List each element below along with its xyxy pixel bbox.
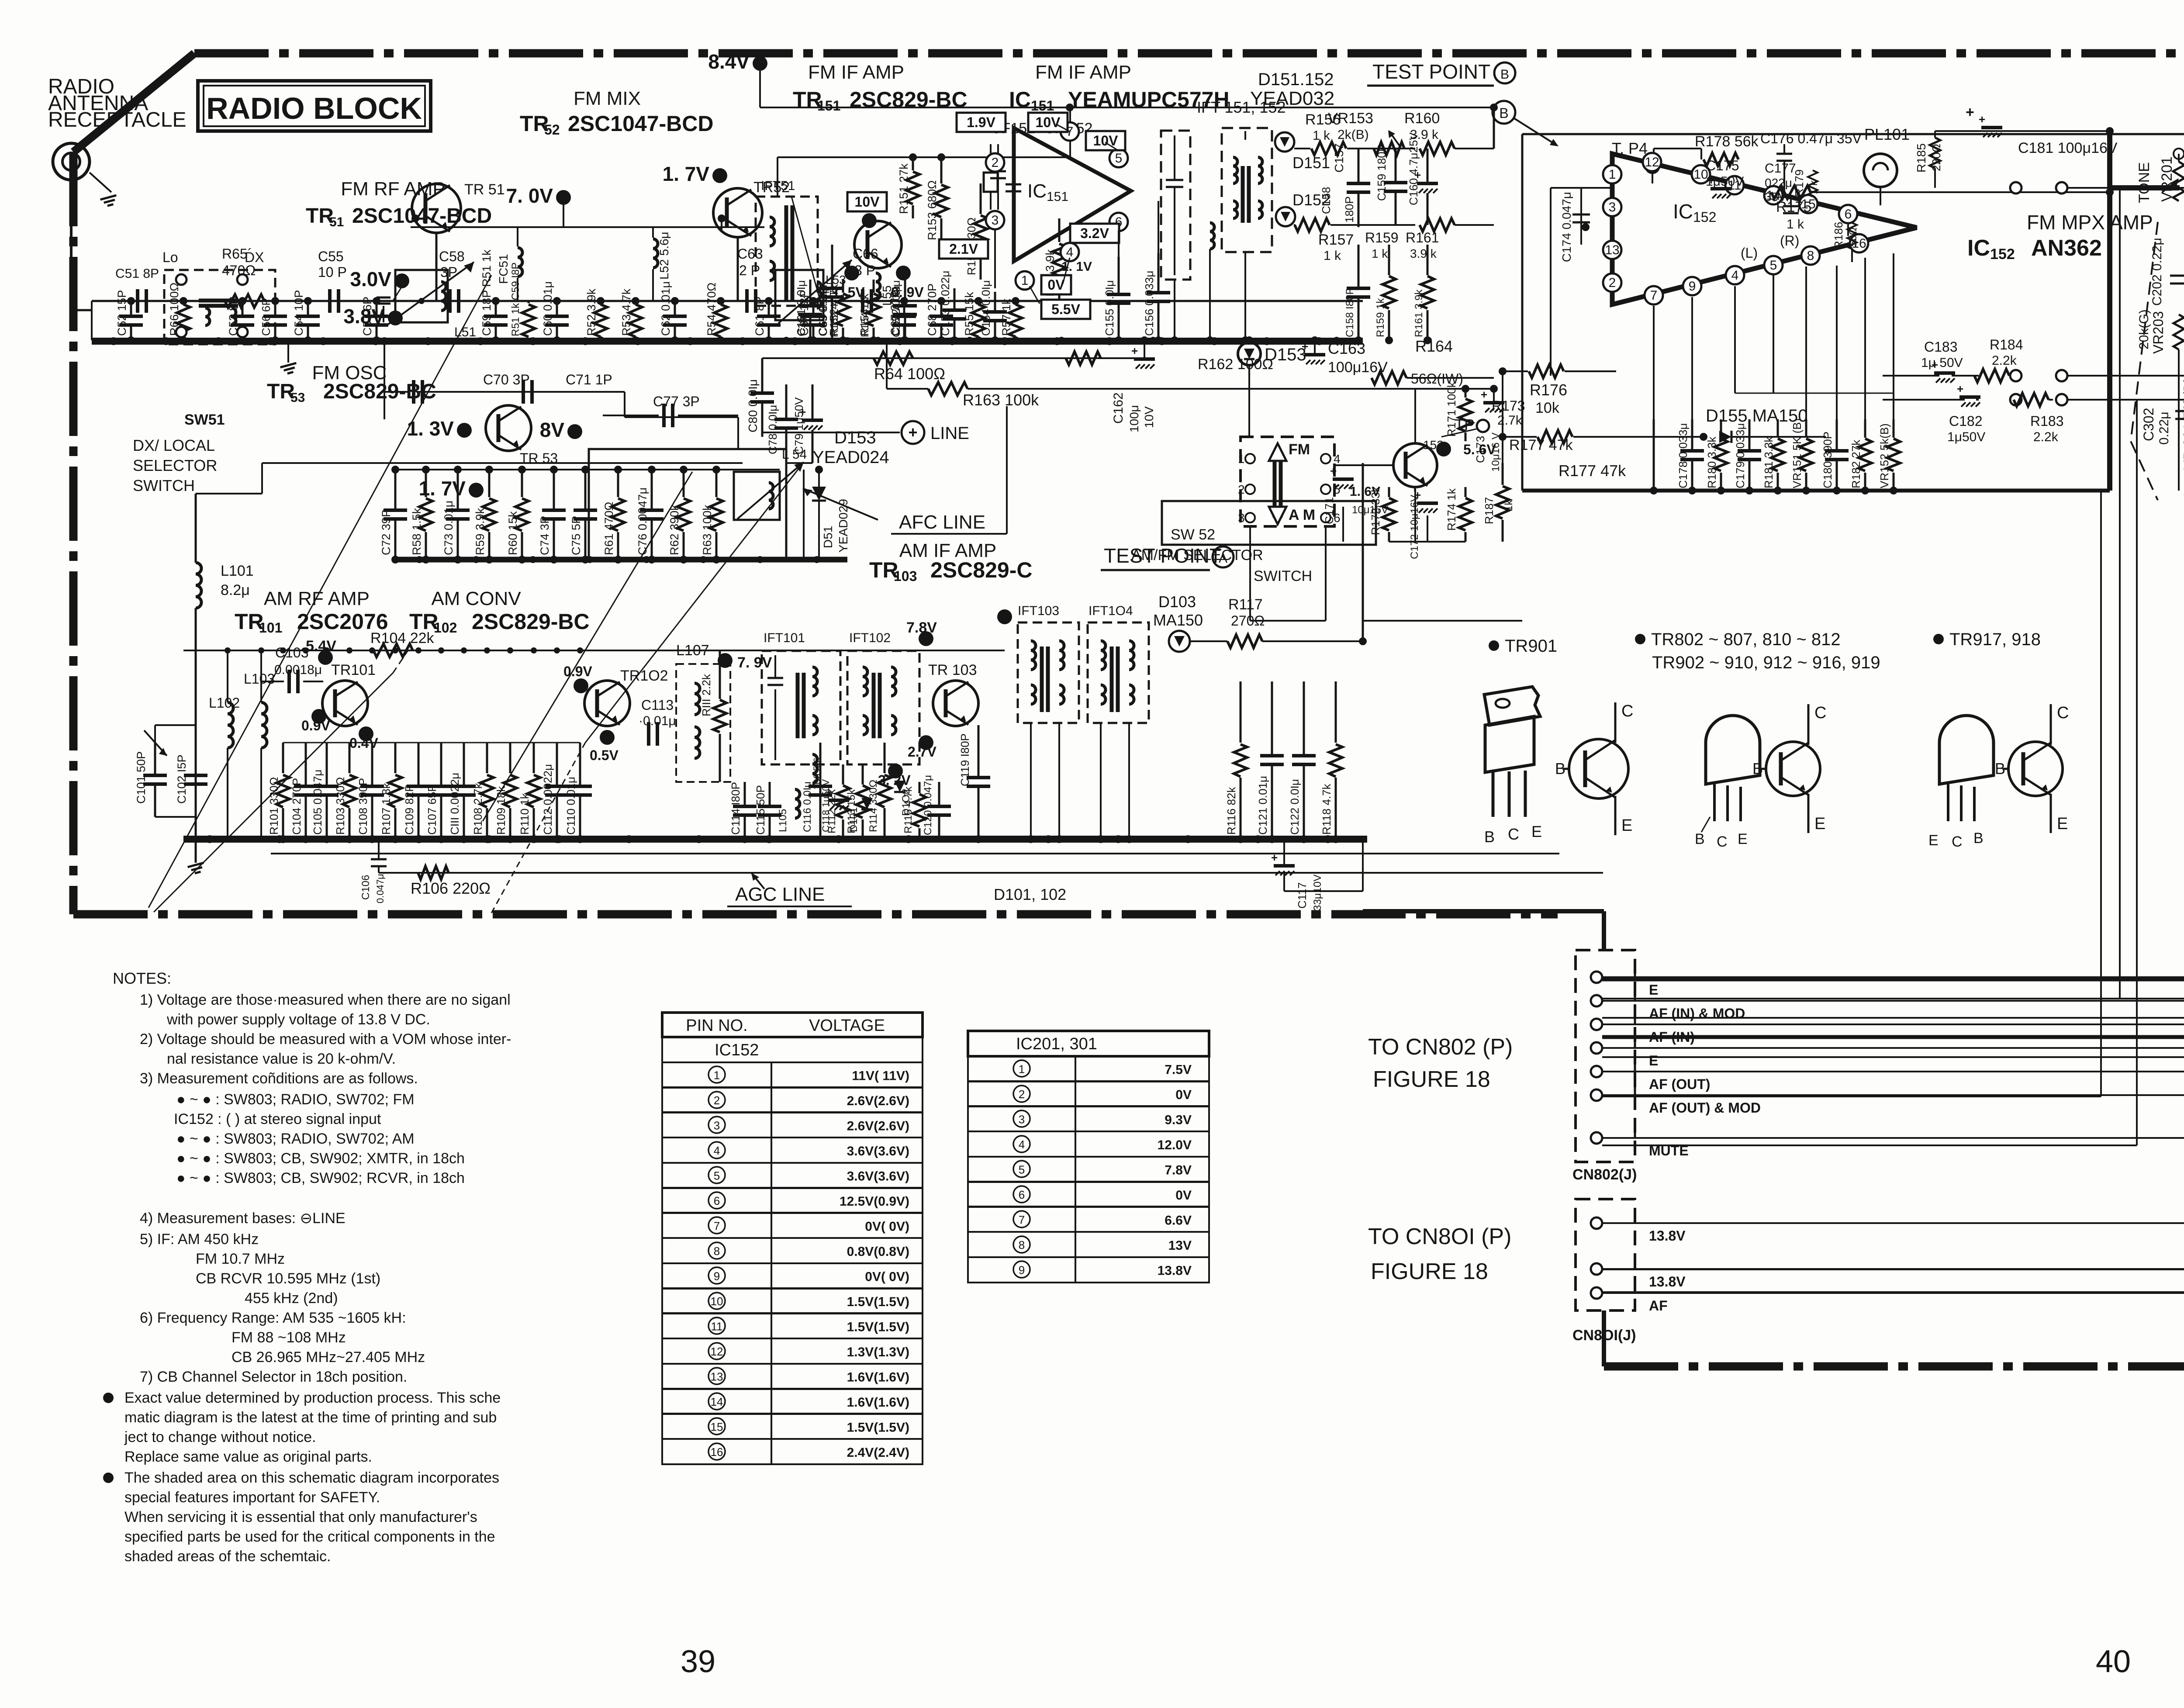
svg-text:C106: C106 — [360, 875, 372, 900]
svg-text:C173: C173 — [1474, 436, 1487, 463]
transistor TR152 — [1393, 443, 1437, 487]
svg-text:R106 220Ω: R106 220Ω — [411, 879, 491, 897]
svg-text:C: C — [1717, 833, 1728, 850]
svg-text:A M: A M — [1289, 507, 1315, 523]
svg-text:1: 1 — [1019, 1062, 1025, 1075]
wire IF rail link — [760, 107, 943, 108]
svg-text:R101 330Ω: R101 330Ω — [267, 777, 280, 835]
resistor R114 330ohm — [884, 743, 886, 773]
svg-text:C101 50P: C101 50P — [135, 751, 148, 804]
wire right risers AM det — [1363, 463, 1415, 463]
pin 3 of IC151 — [986, 211, 1004, 229]
svg-text:E: E — [1649, 1053, 1658, 1068]
svg-text:2: 2 — [1609, 276, 1616, 290]
svg-text:DX/ LOCAL: DX/ LOCAL — [133, 436, 215, 454]
wire AF(IN) — [1602, 638, 2184, 1018]
svg-text:FIGURE 18: FIGURE 18 — [1373, 1067, 1490, 1092]
svg-text:0.9V: 0.9V — [563, 664, 592, 679]
svg-text:R154 1k: R154 1k — [859, 298, 871, 337]
svg-text:C181 100μ16V: C181 100μ16V — [2018, 140, 2118, 156]
svg-text:180P: 180P — [1343, 196, 1356, 223]
svg-text:L101: L101 — [221, 563, 254, 579]
svg-text:4) Measurement bases: ⊖L: 4) Measurement bases: ⊖LINE — [140, 1210, 346, 1227]
svg-text:C174 0.047μ: C174 0.047μ — [1560, 192, 1573, 262]
wire E2 heavy — [1602, 1037, 2184, 1061]
pin 2 of IC152 — [1603, 273, 1621, 292]
svg-text:152: 152 — [1990, 246, 2015, 263]
capacitor C108 — [371, 743, 373, 786]
svg-text:FM MIX: FM MIX — [574, 88, 641, 109]
svg-text:7. 9V: 7. 9V — [737, 654, 772, 671]
svg-text:L52 5.6μ: L52 5.6μ — [657, 232, 671, 280]
pin 12 of IC152 — [1643, 153, 1661, 171]
svg-text:5: 5 — [1115, 151, 1123, 166]
wire heavy E line upper — [1602, 911, 1606, 950]
svg-text:TR 103: TR 103 — [928, 662, 977, 678]
svg-text:2SC1047-BCD: 2SC1047-BCD — [568, 111, 713, 136]
svg-text:C52 15P: C52 15P — [115, 290, 128, 336]
wire SW52 vertical feeds — [1249, 526, 1251, 621]
svg-text:R176: R176 — [1530, 381, 1567, 399]
table IC152 pin voltages — [662, 1013, 923, 1037]
inductor L54 — [734, 472, 780, 520]
wire am det to MPX wall — [1363, 620, 1522, 622]
svg-text:7.8V: 7.8V — [1165, 1163, 1192, 1177]
svg-text:16: 16 — [711, 1445, 723, 1459]
wire am det rail link — [1031, 723, 1129, 723]
lamp PL101 — [1864, 154, 1897, 187]
wire am rail drops — [305, 650, 306, 743]
svg-text:VR201: VR201 — [2159, 156, 2175, 202]
svg-text:C161: C161 — [796, 311, 808, 336]
coil lower 2.2mH — [1210, 223, 1214, 249]
wire TR152 collector up — [1414, 389, 1416, 443]
voltage 3.0V at TR51 base — [394, 273, 409, 288]
svg-text:C152 0.0Iμ: C152 0.0Iμ — [891, 286, 902, 337]
svg-text:12.5V(0.9V): 12.5V(0.9V) — [840, 1194, 909, 1209]
wire L/R output rows — [1882, 306, 1883, 376]
FM OSC bus — [395, 557, 847, 563]
wire MPX lower-left entry — [1522, 491, 1523, 550]
svg-text:C116 0.0Iμ: C116 0.0Iμ — [802, 781, 813, 832]
svg-text:C182: C182 — [1949, 413, 1983, 429]
svg-text:VR151 5K (B): VR151 5K (B) — [1790, 418, 1804, 488]
wire TR51 collector — [415, 218, 416, 221]
voltage box 2.1V — [939, 239, 988, 259]
voltage 1.7V at TR52 — [712, 168, 727, 183]
svg-text:+: + — [1131, 344, 1138, 357]
svg-text:D153: D153 — [1265, 345, 1306, 364]
svg-text:2.2k: 2.2k — [2033, 430, 2059, 444]
svg-text:6: 6 — [714, 1194, 720, 1207]
svg-text:TO CN8OI (P): TO CN8OI (P) — [1368, 1224, 1511, 1249]
svg-text:C109 82P: C109 82P — [403, 784, 416, 835]
svg-text:13V: 13V — [1168, 1238, 1192, 1253]
wire bus stub — [786, 462, 812, 464]
pin 9 of IC152 — [1683, 277, 1701, 295]
transistor TR103 — [933, 681, 978, 726]
svg-text:1 k: 1 k — [1372, 247, 1388, 260]
transformer IFT104 — [1088, 622, 1149, 723]
junction dots OSC bus — [416, 556, 423, 563]
pin 13 of IC152 — [1603, 241, 1621, 259]
coil FC51 — [518, 248, 522, 277]
wire IF out to MPX — [1494, 107, 1522, 108]
svg-text:FC51: FC51 — [497, 254, 510, 284]
svg-text:8.4V: 8.4V — [708, 50, 750, 73]
transistor TR151 — [854, 221, 902, 268]
wire MPX right rows — [2067, 187, 2184, 189]
wire AF(OUT) — [1602, 631, 2184, 1057]
transformer IFT101 — [762, 651, 840, 764]
svg-text:1. 6V: 1. 6V — [1350, 484, 1380, 499]
wire AM det top row — [978, 620, 1363, 621]
capacitor C161 — [809, 280, 812, 306]
package TO-92 TR917 — [1933, 634, 1944, 644]
svg-text:R174 1k: R174 1k — [1445, 488, 1458, 531]
svg-text:R112 22k: R112 22k — [826, 789, 838, 833]
svg-text:101: 101 — [259, 620, 282, 636]
svg-text:FM 88 ~108 MHz: FM 88 ~108 MHz — [232, 1329, 346, 1346]
capacitor C182 1u50V — [1959, 395, 1980, 399]
resistor R61 — [617, 470, 619, 497]
capacitor C181 100u16V — [1981, 126, 2002, 129]
svg-text:2.1V: 2.1V — [949, 241, 978, 257]
inductor L102 — [228, 702, 233, 748]
top rail to IC151 — [943, 107, 1201, 108]
resistor R118 — [1335, 681, 1337, 743]
svg-text:53: 53 — [290, 391, 305, 405]
voltage 8.4V — [753, 56, 767, 71]
wire balance row — [2178, 349, 2180, 491]
resistor R185 220 — [1930, 138, 1940, 168]
resistor R152 — [842, 280, 844, 293]
svg-text:2.6V(2.6V): 2.6V(2.6V) — [847, 1094, 909, 1108]
svg-text:151: 151 — [1031, 98, 1054, 114]
svg-text:12.0V: 12.0V — [1158, 1138, 1192, 1152]
capacitor C58 3P — [448, 289, 452, 313]
capacitor C64 — [812, 301, 815, 316]
svg-text:C54 10P: C54 10P — [292, 290, 305, 336]
capacitor C71 1P — [522, 380, 525, 404]
wire IF top rail — [778, 156, 1070, 158]
pin 11 of IC152 — [1725, 176, 1744, 194]
svg-text:13: 13 — [1605, 243, 1619, 257]
resistor R179 1k — [1808, 170, 1818, 197]
svg-text:C171: C171 — [1323, 497, 1336, 524]
capacitor C155 0.01u — [1118, 257, 1120, 294]
svg-text:R55 15k: R55 15k — [963, 292, 976, 336]
svg-text:2.2k: 2.2k — [1992, 353, 2017, 368]
capacitor C171 10u16V — [1333, 477, 1354, 481]
svg-text:6: 6 — [1845, 207, 1852, 221]
label TR901 — [1489, 640, 1499, 651]
svg-text:with power supply voltage of 1: with power supply voltage of 13.8 V DC. — [166, 1011, 430, 1028]
resistor R111 2.2k — [719, 650, 721, 699]
svg-text:TR101: TR101 — [331, 662, 376, 678]
svg-text:100μ: 100μ — [1127, 405, 1141, 432]
svg-text:R51 1k C59 I8P: R51 1k C59 I8P — [510, 263, 522, 336]
diode D155 MA150 — [1719, 431, 1731, 443]
svg-text:(R): (R) — [1780, 233, 1799, 249]
svg-text:14: 14 — [711, 1395, 723, 1408]
transistor TR102 — [584, 681, 630, 726]
svg-text:C114 I80P: C114 I80P — [729, 782, 742, 835]
svg-text:R159: R159 — [1365, 230, 1399, 245]
voltage 1.3V at TR53 — [457, 423, 472, 438]
resistor R59 — [488, 470, 491, 497]
svg-text:VR153: VR153 — [1328, 110, 1373, 127]
svg-text:MA150: MA150 — [1153, 611, 1203, 629]
svg-text:3: 3 — [714, 1119, 720, 1132]
capacitor C117 33u10V — [1274, 864, 1295, 868]
svg-text:C157: C157 — [1332, 143, 1346, 173]
antenna coil Lo/DX selector box — [164, 270, 275, 344]
svg-text:102: 102 — [434, 620, 457, 636]
svg-text:C69 0.0Iμ: C69 0.0Iμ — [816, 287, 829, 336]
svg-text:0V( 0V): 0V( 0V) — [865, 1219, 909, 1234]
svg-text:1.5V(1.5V): 1.5V(1.5V) — [847, 1420, 909, 1435]
svg-text:TR 51: TR 51 — [464, 181, 505, 198]
svg-text:E: E — [2057, 815, 2068, 833]
svg-text:20k(G): 20k(G) — [2137, 309, 2151, 349]
svg-text:FIGURE 18: FIGURE 18 — [1371, 1259, 1488, 1284]
svg-text:C122 0.0Iμ: C122 0.0Iμ — [1288, 779, 1301, 835]
svg-text:R182 27k: R182 27k — [1849, 439, 1863, 488]
pin 10 of IC152 — [1692, 165, 1710, 183]
capacitor C75 — [584, 470, 587, 510]
svg-text:IFT1O4: IFT1O4 — [1089, 604, 1133, 618]
svg-text:R103 330Ω: R103 330Ω — [334, 777, 347, 835]
wire R187 bottom — [1502, 542, 1503, 560]
capacitor C66 3P — [861, 289, 864, 313]
svg-text:L107: L107 — [676, 642, 709, 659]
resistor R104 22k — [373, 644, 413, 657]
wire vol top entry — [2137, 163, 2184, 164]
svg-text:10μ16V: 10μ16V — [1352, 504, 1388, 516]
capacitor C162 100u10V — [1134, 357, 1155, 361]
svg-text:C119 I80P: C119 I80P — [958, 733, 971, 786]
capacitor C118 1u50V — [828, 799, 849, 802]
svg-text:1.6V(1.6V): 1.6V(1.6V) — [847, 1395, 909, 1410]
capacitor C68 — [940, 301, 943, 316]
resistor R51 1k — [528, 301, 530, 303]
resistor R159 string — [1388, 245, 1390, 275]
svg-text:C79 1μ50V: C79 1μ50V — [792, 397, 805, 454]
capacitor C114 — [744, 782, 746, 806]
AM signal rail — [183, 650, 1005, 651]
svg-text:R159 1k: R159 1k — [1375, 298, 1386, 337]
svg-text:2SC829-C: 2SC829-C — [930, 558, 1032, 582]
wire x3120 riser joins — [1359, 637, 1367, 645]
svg-text:C74 3P: C74 3P — [538, 516, 551, 555]
svg-text:D151: D151 — [1292, 154, 1330, 172]
capacitor C80 0.01u — [761, 358, 764, 393]
svg-text:152: 152 — [1423, 438, 1444, 452]
svg-text:1 k: 1 k — [1324, 249, 1341, 263]
svg-text:2k(B): 2k(B) — [1337, 128, 1369, 142]
wire am det row2 — [820, 742, 843, 743]
svg-text:C: C — [2057, 704, 2069, 722]
wire TR152 emitter down — [1414, 487, 1416, 542]
svg-text:CN8OI(J): CN8OI(J) — [1572, 1327, 1636, 1344]
wire TR152 to SW52 — [1334, 464, 1393, 466]
capacitor C67 — [903, 301, 905, 316]
svg-text:PL101: PL101 — [1864, 125, 1910, 143]
ground below SW51 — [287, 341, 289, 363]
resistor R64 100 — [874, 352, 913, 365]
svg-text:40: 40 — [2096, 1644, 2131, 1679]
svg-text:455 kHz (2nd): 455 kHz (2nd) — [245, 1290, 338, 1307]
voltage box 10V pin5 — [1086, 131, 1125, 150]
svg-text:TONE: TONE — [2136, 162, 2153, 203]
capacitor C60 — [556, 301, 558, 316]
voltage 10V at TR151 — [847, 192, 887, 211]
svg-text:L105: L105 — [777, 809, 789, 832]
resistor R154 — [873, 280, 875, 293]
component VR151 — [1805, 419, 1807, 438]
svg-text:151: 151 — [817, 98, 840, 114]
AM secondary line — [271, 853, 1559, 854]
svg-text:● ~ ● : SW803; RADIO, SW70: ● ~ ● : SW803; RADIO, SW702; FM — [176, 1091, 415, 1108]
capacitor CIII — [463, 743, 465, 786]
svg-text:CN802(J): CN802(J) — [1572, 1166, 1637, 1183]
svg-text:1: 1 — [1609, 167, 1616, 182]
svg-text:1) Voltage are those·measured: 1) Voltage are those·measured when there… — [140, 992, 511, 1008]
svg-text:4: 4 — [1731, 268, 1739, 283]
svg-text:C154 0.0Iμ: C154 0.0Iμ — [979, 280, 992, 336]
voltage 7.0V — [556, 190, 571, 205]
capacitor C103 0.0018u — [287, 670, 291, 693]
inductor L51 tank — [395, 270, 448, 322]
svg-text:C108 390P: C108 390P — [356, 778, 370, 835]
svg-text:R60 15k: R60 15k — [506, 511, 519, 555]
antenna jack — [53, 143, 90, 180]
op-amp IC151 — [1014, 128, 1131, 261]
svg-text:C178 0.033μ: C178 0.033μ — [1676, 423, 1690, 488]
wire 13.8V b — [1602, 1079, 2184, 1269]
svg-text:IC: IC — [1027, 180, 1047, 202]
wire from det to MPX pin1 — [1511, 183, 1612, 184]
capacitor C115 — [769, 782, 771, 806]
wire detector substring b — [1209, 249, 1211, 340]
pin 5 of IC151 — [1109, 149, 1128, 167]
wire det out right — [1493, 225, 1494, 245]
svg-text:R58 1.5k: R58 1.5k — [410, 508, 423, 555]
voltage 0.9V — [896, 266, 911, 280]
wire E heavy to right — [1602, 631, 2184, 979]
svg-text:R107 1.8k: R107 1.8k — [380, 782, 393, 835]
svg-text:IC: IC — [1673, 200, 1693, 223]
pin 5 of IC152 — [1764, 256, 1783, 274]
junction dots AM rail — [225, 647, 231, 653]
capacitor C120 0.047u — [938, 782, 940, 806]
svg-text:8: 8 — [1807, 249, 1814, 263]
svg-text:0.22μ: 0.22μ — [2157, 411, 2171, 445]
svg-text:L102: L102 — [209, 695, 240, 711]
svg-text:IC152 : ( ) at stereo: IC152 : ( ) at stereo signal input — [174, 1111, 381, 1127]
svg-text:VOLTAGE: VOLTAGE — [809, 1017, 885, 1035]
svg-text:FM IF AMP: FM IF AMP — [1035, 62, 1131, 83]
title RADIO BLOCK — [198, 81, 431, 131]
resistor R176 10k — [1529, 365, 1564, 378]
capacitor C121 — [1271, 681, 1273, 756]
capacitor C116 0.01u — [819, 743, 822, 786]
voltage box 10V pin7 — [1028, 113, 1068, 132]
svg-text:R175: R175 — [1776, 199, 1811, 215]
svg-text:·0.01μ: ·0.01μ — [639, 714, 676, 728]
AGC line — [379, 872, 1603, 874]
svg-text:C51 8P: C51 8P — [115, 266, 159, 281]
svg-text:C103: C103 — [275, 645, 309, 660]
switch contacts — [1245, 454, 1255, 463]
wire sel switch box to AM — [1179, 501, 1180, 631]
svg-text:39: 39 — [681, 1644, 715, 1679]
svg-text:R187: R187 — [1482, 497, 1496, 524]
pin 6 of IC152 — [1839, 205, 1857, 223]
capacitor C69 0.01u — [831, 245, 833, 288]
capacitor C152 — [904, 280, 906, 306]
svg-text:R177 47k: R177 47k — [1509, 437, 1573, 453]
svg-text:1: 1 — [714, 1068, 720, 1082]
diode D152 — [1276, 207, 1295, 226]
svg-text:10V: 10V — [1093, 133, 1119, 149]
svg-text:+: + — [1957, 382, 1963, 395]
capacitor C107 — [440, 743, 442, 786]
inductor L107 — [676, 664, 730, 782]
svg-text:R57 1k: R57 1k — [1000, 298, 1013, 336]
svg-text:R64 100Ω: R64 100Ω — [874, 365, 945, 383]
svg-text:C158: C158 — [1320, 187, 1333, 214]
svg-text:C179 0.033μ: C179 0.033μ — [1734, 423, 1747, 488]
svg-text:LINE: LINE — [930, 424, 969, 443]
capacitor C159 180P — [1395, 149, 1397, 183]
svg-text:022μ: 022μ — [1765, 176, 1792, 190]
svg-text:0.8V(0.8V): 0.8V(0.8V) — [847, 1245, 909, 1259]
svg-text:8: 8 — [1019, 1238, 1025, 1252]
svg-text:● ~ ● : SW803; CB, SW902;: ● ~ ● : SW803; CB, SW902; RCVR, in 18ch — [176, 1170, 465, 1186]
svg-text:E: E — [1621, 816, 1632, 835]
svg-text:9: 9 — [714, 1269, 720, 1283]
capacitor C101 50P variable — [154, 743, 156, 775]
capacitor C63 2P — [745, 289, 749, 313]
capacitor C56 6P — [274, 301, 276, 316]
resistor R163 100k — [928, 382, 968, 395]
voltage 8V at TR53 — [567, 424, 582, 439]
svg-text:VR 301 50k(D): VR 301 50k(D) — [2181, 377, 2184, 470]
svg-text:C183: C183 — [1924, 339, 1958, 355]
svg-text:1 k: 1 k — [1313, 128, 1330, 143]
svg-text:SWITCH: SWITCH — [133, 477, 195, 494]
wire OSC top to bus — [624, 417, 625, 449]
svg-text:ject to change without notice.: ject to change without notice. — [124, 1429, 316, 1445]
diode D151 — [1275, 132, 1294, 152]
pin 15 of IC152 — [1799, 195, 1818, 213]
svg-text:D103: D103 — [1158, 593, 1196, 611]
svg-text:B: B — [1973, 830, 1984, 847]
svg-text:C110 0.01μ: C110 0.01μ — [564, 777, 577, 835]
svg-text:4: 4 — [1066, 245, 1074, 259]
svg-text:12: 12 — [711, 1345, 723, 1358]
voltage box 1.9V pin2 — [957, 113, 1006, 132]
svg-text:11: 11 — [711, 1320, 723, 1333]
svg-text:10 P: 10 P — [318, 264, 347, 280]
package TO-220 TR901 — [1484, 687, 1540, 725]
capacitor C173 10u16V — [1483, 401, 1504, 405]
pin 1 of IC152 — [1603, 165, 1621, 183]
svg-text:SW 52: SW 52 — [1171, 526, 1215, 543]
svg-text:Lo: Lo — [162, 249, 178, 265]
